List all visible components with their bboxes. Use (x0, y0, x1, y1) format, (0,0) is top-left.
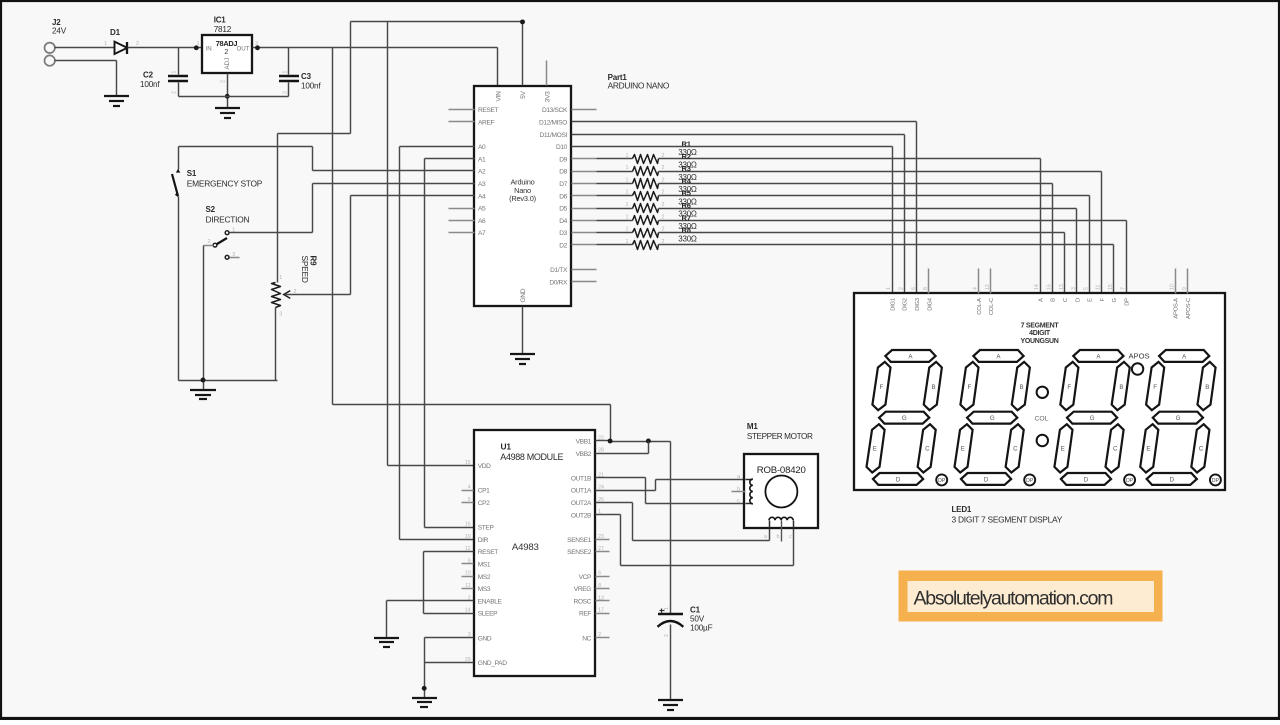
wire R2 to display segment pin (659, 172, 1102, 294)
svg-text:50V: 50V (690, 615, 705, 624)
svg-text:SPEED: SPEED (300, 256, 310, 283)
pin stub APOS-A (1175, 269, 1177, 294)
wire OUT1A to motor coil a (596, 480, 746, 491)
svg-text:1: 1 (626, 239, 629, 245)
svg-text:D5: D5 (559, 206, 567, 213)
diode D1 (115, 42, 128, 54)
svg-text:F: F (880, 384, 884, 391)
svg-text:A4983: A4983 (512, 542, 539, 553)
pin stub MS2 (462, 576, 474, 578)
svg-text:2: 2 (899, 287, 905, 290)
R2 pin numbers (626, 165, 665, 171)
svg-text:D2: D2 (559, 243, 567, 250)
svg-text:C1: C1 (690, 606, 701, 615)
svg-text:COL-C: COL-C (989, 297, 995, 315)
ground (IC1 ADJ) (215, 108, 240, 118)
svg-text:D: D (896, 477, 901, 484)
svg-text:A6: A6 (478, 218, 486, 225)
voltage regulator IC1 box (202, 35, 252, 73)
R3 pin numbers (626, 177, 665, 183)
svg-text:(Rev3.0): (Rev3.0) (509, 194, 536, 203)
R8 pin numbers (626, 239, 665, 245)
resistor R3 (633, 179, 659, 189)
Arduino Nano value text (509, 178, 536, 204)
label Part1 ARDUINO NANO (608, 73, 670, 91)
svg-text:1: 1 (197, 41, 200, 47)
svg-text:R3: R3 (682, 164, 691, 173)
svg-text:S2: S2 (206, 205, 216, 214)
svg-text:MS1: MS1 (478, 562, 491, 569)
svg-text:DIG4: DIG4 (927, 297, 933, 311)
svg-text:1: 1 (626, 190, 629, 196)
svg-text:2: 2 (136, 41, 139, 47)
svg-text:D: D (1170, 477, 1175, 484)
wire VBB rail to C1 (670, 442, 672, 614)
svg-text:D: D (984, 477, 989, 484)
svg-text:C: C (1113, 445, 1118, 452)
wire 5V net to R9 pin1 (278, 22, 523, 283)
wire Arduino GND down (522, 307, 524, 355)
svg-text:STEPPER MOTOR: STEPPER MOTOR (747, 432, 813, 441)
junction dot GND net (422, 686, 427, 691)
label R1 330 ohm (678, 140, 697, 158)
svg-text:D12/MISO: D12/MISO (539, 120, 567, 127)
svg-text:15: 15 (465, 460, 471, 466)
wire IC1 ADJ pin to ground (227, 74, 229, 109)
svg-text:3: 3 (1071, 287, 1077, 290)
wire R5 to display segment pin (659, 209, 1077, 294)
svg-text:15: 15 (1108, 284, 1114, 290)
R7 pin numbers (626, 227, 665, 233)
svg-text:11: 11 (1096, 285, 1102, 290)
svg-text:ENABLE: ENABLE (478, 598, 503, 605)
svg-text:G: G (1090, 415, 1095, 422)
motor pin letters (737, 474, 792, 540)
svg-text:3V3: 3V3 (545, 91, 552, 102)
svg-text:IN: IN (206, 45, 212, 52)
svg-text:4DIGIT: 4DIGIT (1029, 330, 1051, 337)
svg-text:R5: R5 (682, 189, 692, 198)
svg-text:LED1: LED1 (952, 505, 972, 514)
display title text (1020, 322, 1059, 345)
svg-text:1: 1 (279, 275, 282, 281)
7-segment digit 3 (1054, 350, 1135, 485)
svg-text:VIN: VIN (496, 91, 503, 102)
pin stub CP1 (462, 490, 474, 492)
wire U1 RESET to SLEEP (424, 552, 474, 614)
svg-text:1: 1 (626, 227, 629, 233)
label C1 50V 100uF (690, 606, 713, 633)
motor circle (765, 476, 797, 508)
junction dot 5V (520, 19, 525, 24)
svg-text:b: b (777, 534, 780, 540)
svg-text:100µF: 100µF (690, 624, 713, 633)
svg-text:D1: D1 (110, 28, 121, 37)
svg-text:1: 1 (626, 202, 629, 208)
Arduino pin names (478, 91, 568, 303)
svg-text:MS2: MS2 (478, 574, 491, 581)
S2 pin numbers (208, 228, 236, 258)
svg-text:2: 2 (662, 202, 665, 208)
svg-text:10: 10 (1170, 284, 1176, 290)
svg-text:YOUNGSUN: YOUNGSUN (1020, 338, 1058, 345)
svg-text:ROSC: ROSC (573, 598, 591, 605)
R6 pin numbers (626, 214, 665, 220)
svg-text:D1/TX: D1/TX (550, 267, 568, 274)
pin stub COL-C (990, 269, 992, 294)
pin stub VCP (596, 576, 610, 578)
svg-text:3: 3 (279, 312, 282, 318)
switch S2 (direction) (204, 231, 240, 259)
svg-text:ROB-08420: ROB-08420 (757, 465, 806, 476)
svg-text:A7: A7 (478, 230, 486, 237)
svg-text:COL: COL (1035, 416, 1049, 423)
svg-text:F: F (1067, 384, 1071, 391)
7-segment digit 1 (867, 350, 948, 485)
svg-text:NC: NC (582, 635, 591, 642)
junction dot at IC1 ground net (225, 94, 230, 99)
IC1 pin numbers (197, 41, 259, 83)
svg-text:DP: DP (1126, 478, 1134, 484)
wire R1 to display segment pin (659, 159, 1041, 294)
7-segment digit 4 (1140, 350, 1221, 485)
wire D5 to R5 (597, 208, 633, 210)
svg-text:VDD: VDD (478, 463, 491, 470)
label M1 STEPPER MOTOR (747, 422, 813, 441)
svg-text:2: 2 (220, 80, 226, 83)
svg-text:VBB1: VBB1 (576, 439, 592, 446)
svg-text:2: 2 (208, 239, 211, 245)
pin stub D6 (572, 195, 597, 197)
wire D10 to display DIG1 (572, 147, 893, 294)
svg-text:16: 16 (1047, 284, 1053, 290)
svg-text:DIRECTION: DIRECTION (206, 214, 250, 224)
motor left coil with center tap (732, 479, 753, 504)
svg-text:A0: A0 (478, 144, 486, 151)
wire D4 to R6 (597, 220, 633, 222)
resistor R8 (633, 241, 659, 250)
resistor R4 (633, 192, 659, 201)
svg-text:F: F (968, 384, 972, 391)
svg-text:3 DIGIT 7 SEGMENT DISPLAY: 3 DIGIT 7 SEGMENT DISPLAY (952, 515, 1063, 525)
pin stub A6 (449, 220, 475, 222)
svg-text:1: 1 (626, 214, 629, 220)
svg-text:B: B (1119, 384, 1123, 391)
svg-text:DIG1: DIG1 (890, 298, 896, 311)
svg-text:E: E (961, 445, 965, 452)
label S1 EMERGENCY STOP (187, 169, 263, 189)
svg-text:GND: GND (520, 288, 527, 302)
wire switch ground net (179, 381, 278, 391)
motor bottom coil (769, 517, 794, 528)
svg-text:SLEEP: SLEEP (478, 611, 498, 618)
svg-text:G: G (902, 415, 907, 422)
C1 pin numbers (664, 607, 670, 637)
ground (J2 return) (104, 96, 129, 106)
7-segment digit 2 (955, 350, 1036, 485)
svg-text:APOS-C: APOS-C (1186, 297, 1192, 319)
R9 pin numbers (279, 275, 296, 318)
motor value ROB-08420 (757, 465, 806, 476)
svg-text:EMERGENCY STOP: EMERGENCY STOP (187, 179, 263, 189)
resistor R7 (633, 229, 659, 238)
svg-text:2: 2 (224, 49, 228, 56)
svg-text:24V: 24V (52, 27, 67, 36)
svg-text:DP: DP (938, 478, 946, 484)
svg-text:A4988 MODULE: A4988 MODULE (500, 452, 563, 462)
svg-text:1: 1 (886, 287, 892, 290)
wire 12V rail to Arduino VIN (289, 48, 498, 86)
svg-text:1: 1 (626, 177, 629, 183)
pin stub D4 (572, 220, 597, 222)
pin stub 3V3 (546, 61, 548, 86)
display colon (COL) (1035, 387, 1049, 447)
svg-text:R7: R7 (682, 213, 691, 222)
svg-text:c: c (737, 498, 740, 504)
pin stub DIG4 (928, 269, 930, 294)
wire D11 to display DIG2 (572, 135, 905, 294)
svg-text:A3: A3 (478, 181, 486, 188)
label C3 100nf (301, 72, 321, 91)
svg-text:A1: A1 (478, 156, 486, 163)
wire D8 to R2 (597, 171, 633, 173)
wire VBB1 rail (596, 441, 671, 442)
svg-text:B: B (932, 384, 936, 391)
wire S1 to Arduino A2 (179, 147, 475, 171)
switch S1 (emergency stop) (172, 147, 180, 381)
R4 pin numbers (626, 190, 665, 196)
svg-text:2: 2 (283, 91, 289, 94)
svg-text:1: 1 (626, 153, 629, 159)
svg-text:ARDUINO NANO: ARDUINO NANO (608, 80, 670, 90)
svg-text:CP1: CP1 (478, 488, 490, 495)
svg-text:VCP: VCP (579, 574, 592, 581)
banner Absolutelyautomation.com (899, 571, 1163, 622)
label C2 100nf (140, 70, 160, 89)
svg-text:7812: 7812 (214, 25, 232, 34)
wire D2 to R8 (597, 244, 633, 246)
ground (U1) (412, 698, 437, 707)
svg-text:1: 1 (172, 71, 178, 74)
wire R6 to display segment pin (659, 221, 1127, 294)
svg-text:G: G (1176, 415, 1181, 422)
svg-text:A: A (1038, 298, 1044, 302)
pin stub MS1 (462, 563, 474, 565)
svg-text:R2: R2 (682, 152, 691, 161)
wire Arduino A1 to A4988 STEP (425, 159, 475, 528)
pin stub SENSE2 (596, 551, 610, 553)
svg-text:13: 13 (1059, 284, 1065, 290)
svg-text:COL-A: COL-A (977, 298, 983, 315)
svg-text:DP: DP (1125, 298, 1131, 306)
connector J2 (24V input) pins 1,2 (45, 43, 55, 66)
pin stub D0/RX (572, 281, 597, 283)
svg-text:330Ω: 330Ω (678, 234, 697, 243)
label R3 330 ohm (678, 164, 697, 182)
svg-text:DIG2: DIG2 (903, 298, 909, 311)
pin stub D8 (572, 171, 597, 173)
IC1 pin names 78ADJ (206, 39, 250, 69)
A4988 module U1 box (474, 430, 595, 676)
resistor R2 (633, 167, 659, 176)
wire OUT2B to motor bottom pin (596, 515, 794, 566)
pin stub D2 (572, 244, 597, 246)
wire VBB2 to VBB rail (596, 442, 649, 454)
label R2 330 ohm (678, 152, 697, 170)
label R9 SPEED (300, 256, 317, 283)
svg-text:78ADJ: 78ADJ (216, 39, 238, 48)
Arduino Nano Part1 box (474, 86, 571, 306)
pin stub REF (596, 613, 610, 615)
svg-text:7: 7 (1120, 287, 1126, 290)
wire 5V net to A4988 VDD (388, 22, 474, 466)
svg-text:100nf: 100nf (301, 81, 321, 90)
ground (switches) (190, 390, 216, 399)
svg-text:C2: C2 (143, 70, 154, 79)
label S2 DIRECTION (206, 205, 250, 225)
svg-text:GND: GND (478, 635, 492, 642)
potentiometer R9 body (272, 283, 281, 381)
label D1 (110, 28, 121, 37)
label IC1 7812 (214, 16, 232, 34)
svg-text:VBB2: VBB2 (576, 451, 592, 458)
wire OUT2A to motor bottom pin (596, 503, 770, 541)
R1 pin numbers (626, 153, 665, 159)
label R4 330 ohm (678, 176, 697, 194)
wire 12V rail down to A4988 VBB (333, 48, 611, 442)
R9 wiper arrow and wire (284, 291, 351, 299)
pin stub COL-A (978, 269, 980, 294)
svg-text:D4: D4 (559, 218, 567, 225)
wire R4 to display segment pin (659, 196, 1090, 294)
C2 pin numbers (172, 71, 178, 95)
wire OUT1B to motor coil c (596, 478, 746, 504)
svg-text:OUT2A: OUT2A (571, 500, 592, 507)
svg-text:VREG: VREG (574, 586, 592, 593)
wire J2 pin2 down to ground (55, 61, 117, 97)
svg-text:DIG3: DIG3 (915, 297, 921, 311)
svg-text:ADJ: ADJ (224, 58, 231, 70)
pin stub D3 (572, 232, 597, 234)
pin stub CP2 (462, 502, 474, 504)
capacitor C2 (168, 48, 188, 97)
label U1 A4988 MODULE (500, 441, 563, 462)
label R5 330 ohm (678, 189, 697, 207)
svg-text:DIR: DIR (478, 537, 489, 544)
pin stub RESET (449, 109, 475, 111)
svg-text:A5: A5 (478, 206, 486, 213)
svg-text:14: 14 (465, 608, 471, 614)
wire D7 to R3 (597, 183, 633, 185)
svg-text:REF: REF (579, 611, 591, 618)
wire R8 to display segment pin (659, 245, 1114, 294)
svg-text:19: 19 (465, 534, 471, 540)
svg-text:D10: D10 (556, 144, 568, 151)
svg-text:C: C (1199, 445, 1204, 452)
svg-text:B: B (1205, 384, 1209, 391)
ground (ENABLE) (374, 638, 399, 647)
wire U1 GND and GND_PAD to ground (425, 638, 474, 698)
C3 pin numbers (283, 71, 289, 95)
label R6 330 ohm (678, 201, 697, 219)
wire U1 ENABLE to ground (387, 601, 474, 638)
svg-text:S1: S1 (187, 169, 197, 178)
svg-text:2: 2 (664, 634, 670, 637)
svg-text:RESET: RESET (478, 549, 499, 556)
U1 value text A4983 (512, 542, 539, 553)
svg-text:AREF: AREF (478, 120, 495, 127)
svg-text:D7: D7 (559, 181, 567, 188)
svg-text:APOS: APOS (1128, 351, 1149, 360)
pin stub APOS-C (1187, 269, 1189, 294)
pin stub NC (596, 637, 610, 639)
label J2 24V (52, 18, 67, 35)
svg-text:2: 2 (172, 91, 178, 94)
svg-text:D3: D3 (559, 230, 567, 237)
pin stub MS3 (462, 588, 474, 590)
pin stub D5 (572, 208, 597, 210)
svg-text:5: 5 (1083, 287, 1089, 290)
svg-text:D6: D6 (559, 193, 567, 200)
svg-text:A2: A2 (478, 169, 486, 176)
svg-text:M1: M1 (747, 422, 758, 431)
pin stub D7 (572, 183, 597, 185)
svg-text:B: B (1051, 298, 1057, 302)
U1 pin names and numbers (465, 435, 604, 667)
svg-text:4: 4 (973, 287, 979, 290)
junction dots VBB rail (608, 439, 651, 444)
svg-text:R8: R8 (682, 226, 691, 235)
svg-text:D: D (1084, 477, 1089, 484)
svg-text:MS3: MS3 (478, 586, 491, 593)
svg-text:7 SEGMENT: 7 SEGMENT (1021, 322, 1060, 329)
svg-text:DP: DP (1212, 478, 1220, 484)
svg-text:E: E (873, 445, 877, 452)
pin stub ROSC (596, 600, 610, 602)
label R8 330 ohm (678, 226, 697, 244)
svg-text:G: G (1112, 297, 1118, 302)
svg-text:A4: A4 (478, 193, 486, 200)
capacitor C1 (polarized) (658, 609, 684, 701)
svg-text:17: 17 (598, 608, 604, 614)
display pin names and numbers (886, 284, 1192, 319)
svg-text:B: B (1020, 384, 1024, 391)
ground (Arduino) (510, 354, 535, 364)
svg-text:G: G (990, 415, 995, 422)
stepper motor M1 box (744, 454, 818, 528)
pin stub D13/SCK (572, 109, 597, 111)
svg-text:F: F (1153, 384, 1157, 391)
svg-text:3: 3 (232, 252, 235, 258)
svg-text:SENSE1: SENSE1 (567, 537, 592, 544)
svg-text:Absolutelyautomation.com: Absolutelyautomation.com (914, 587, 1113, 609)
junction dot ground net (201, 378, 206, 383)
wire D1 cathode to IC1 IN (128, 47, 203, 49)
svg-text:D8: D8 (559, 169, 567, 176)
resistor R6 (633, 216, 659, 225)
svg-text:OUT: OUT (236, 45, 249, 52)
wire C2/IC1/C3 ground net (179, 96, 289, 98)
wire S2 pin2 down to ground net (203, 246, 205, 381)
svg-text:SENSE2: SENSE2 (567, 549, 592, 556)
R5 pin numbers (626, 202, 665, 208)
pin stub AREF (449, 121, 475, 123)
label LED1 3 DIGIT 7 SEGMENT DISPLAY (952, 505, 1063, 525)
svg-text:D11/MOSI: D11/MOSI (540, 132, 568, 139)
svg-text:GND_PAD: GND_PAD (478, 660, 508, 667)
svg-text:DP: DP (1026, 478, 1034, 484)
svg-text:OUT1B: OUT1B (571, 475, 592, 482)
